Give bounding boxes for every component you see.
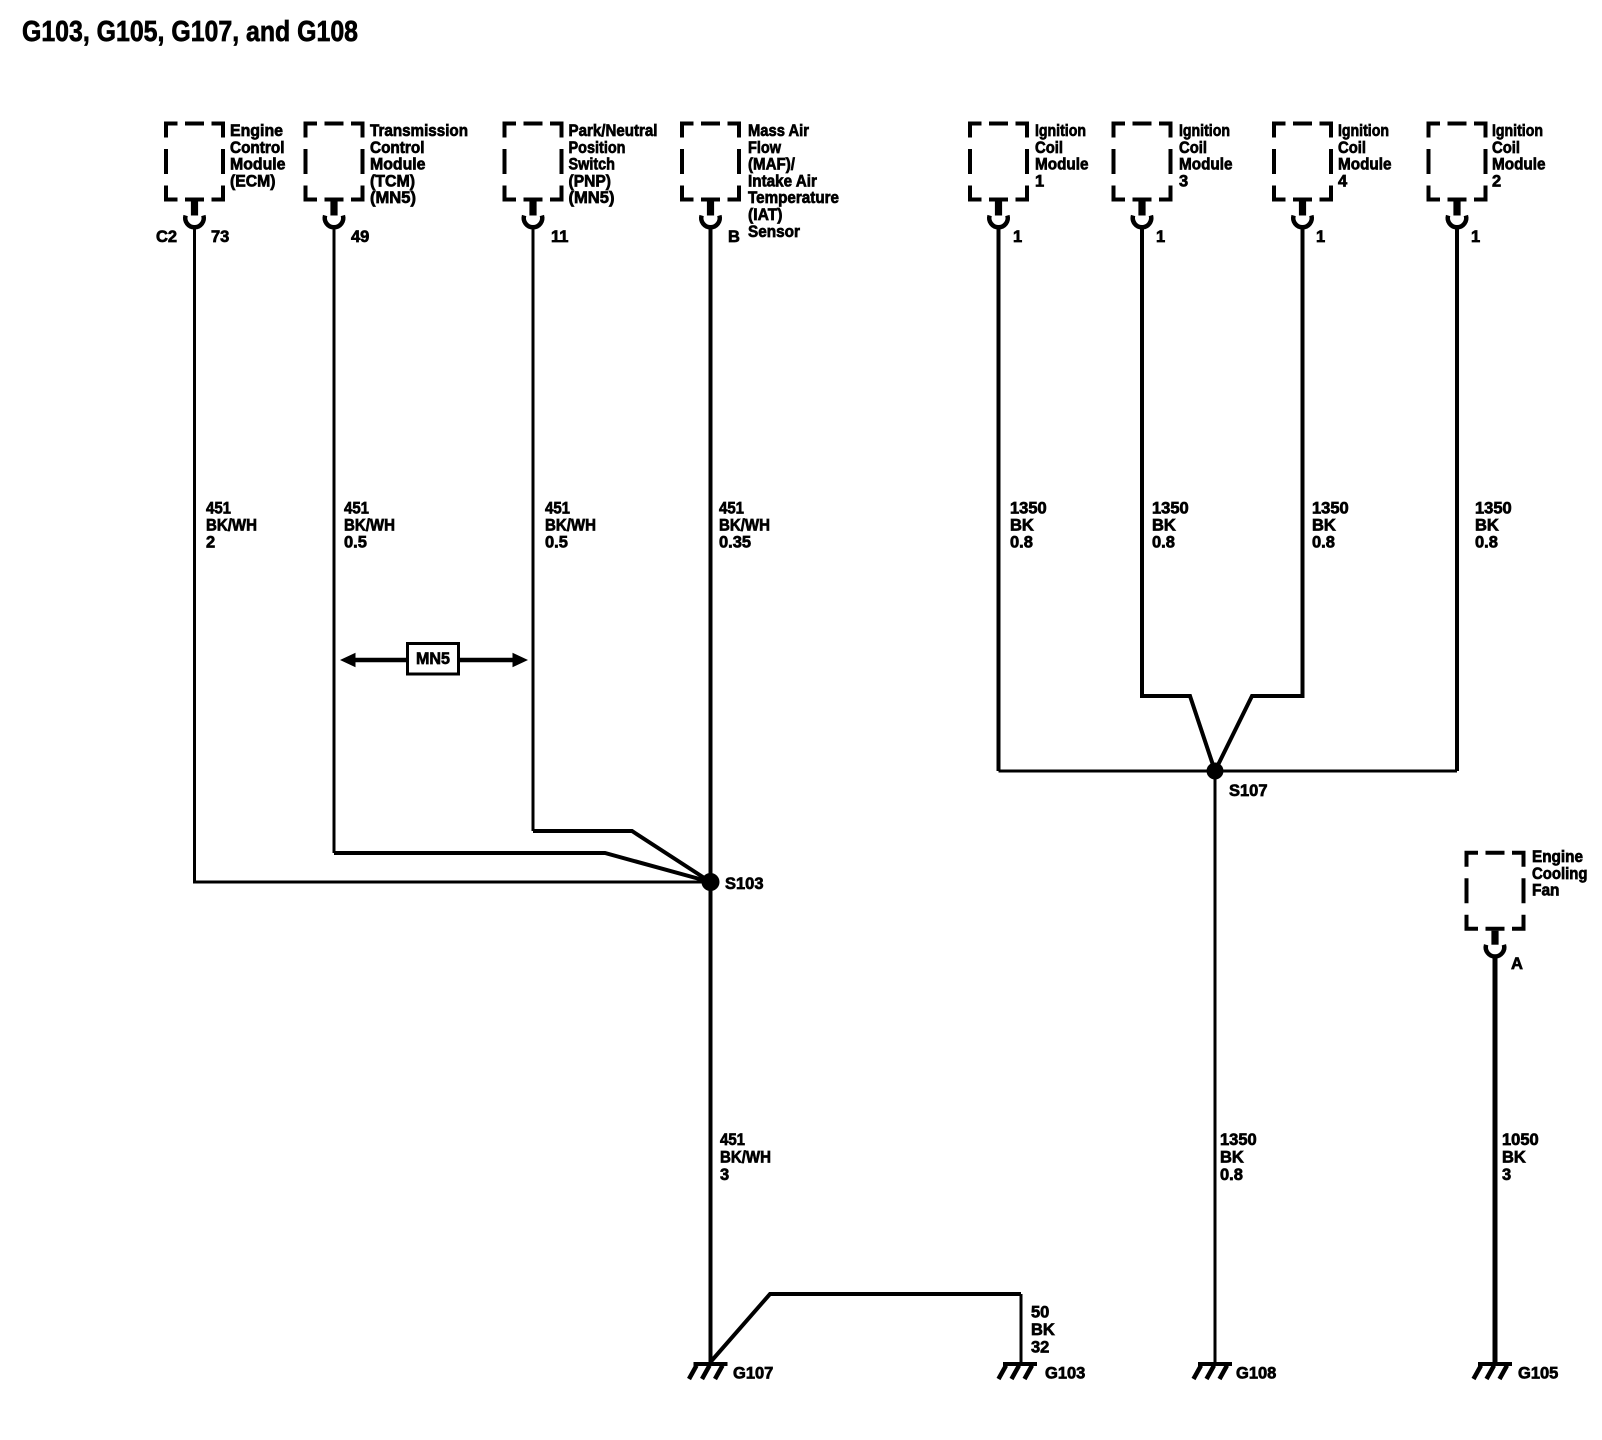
svg-text:BK/WH: BK/WH (206, 517, 257, 535)
svg-text:0.35: 0.35 (719, 534, 751, 552)
svg-text:3: 3 (1179, 172, 1188, 190)
svg-text:Control: Control (230, 139, 285, 157)
svg-text:1: 1 (1035, 172, 1044, 190)
svg-text:Engine: Engine (1532, 848, 1583, 866)
svg-text:0.8: 0.8 (1220, 1166, 1243, 1184)
svg-text:S103: S103 (725, 875, 764, 893)
svg-text:Coil: Coil (1492, 139, 1520, 157)
svg-text:G108: G108 (1236, 1365, 1276, 1383)
svg-text:0.8: 0.8 (1312, 534, 1335, 552)
svg-text:BK: BK (1031, 1321, 1055, 1339)
svg-text:G107: G107 (733, 1365, 773, 1383)
svg-text:G103, G105, G107, and G108: G103, G105, G107, and G108 (22, 16, 358, 48)
svg-text:451: 451 (719, 500, 744, 518)
svg-text:49: 49 (351, 228, 369, 246)
svg-text:BK: BK (1220, 1149, 1244, 1167)
svg-text:1: 1 (1471, 228, 1480, 246)
svg-text:(PNP): (PNP) (569, 172, 612, 190)
svg-text:Mass Air: Mass Air (748, 122, 810, 140)
svg-text:Flow: Flow (748, 139, 781, 157)
svg-text:0.5: 0.5 (545, 534, 568, 552)
svg-text:Module: Module (370, 156, 426, 174)
svg-text:Coil: Coil (1035, 139, 1063, 157)
svg-text:Ignition: Ignition (1179, 122, 1230, 140)
svg-text:1: 1 (1156, 228, 1165, 246)
svg-text:1350: 1350 (1312, 500, 1349, 518)
svg-text:Module: Module (1179, 156, 1233, 174)
svg-text:Position: Position (569, 139, 626, 157)
svg-text:Engine: Engine (230, 122, 283, 140)
svg-text:Sensor: Sensor (748, 223, 801, 241)
svg-text:Cooling: Cooling (1532, 865, 1588, 883)
svg-text:(MN5): (MN5) (569, 189, 615, 207)
svg-text:3: 3 (1502, 1166, 1511, 1184)
svg-text:BK: BK (1502, 1149, 1526, 1167)
svg-text:BK/WH: BK/WH (719, 517, 770, 535)
svg-text:Module: Module (1492, 156, 1546, 174)
svg-text:BK/WH: BK/WH (344, 517, 395, 535)
svg-text:451: 451 (720, 1131, 745, 1149)
svg-text:Fan: Fan (1532, 882, 1560, 900)
svg-text:BK: BK (1152, 517, 1176, 535)
svg-text:1350: 1350 (1220, 1131, 1257, 1149)
svg-text:Switch: Switch (569, 156, 616, 174)
svg-text:Park/Neutral: Park/Neutral (569, 122, 658, 140)
svg-text:Coil: Coil (1179, 139, 1207, 157)
svg-text:BK/WH: BK/WH (720, 1149, 771, 1167)
svg-text:BK: BK (1010, 517, 1034, 535)
svg-text:2: 2 (1492, 172, 1501, 190)
svg-text:G103: G103 (1045, 1365, 1085, 1383)
svg-text:1350: 1350 (1010, 500, 1047, 518)
svg-text:Control: Control (370, 139, 425, 157)
svg-text:Ignition: Ignition (1338, 122, 1389, 140)
svg-text:G105: G105 (1518, 1365, 1558, 1383)
svg-text:2: 2 (206, 534, 215, 552)
svg-text:1050: 1050 (1502, 1131, 1539, 1149)
svg-text:1: 1 (1013, 228, 1022, 246)
svg-text:BK: BK (1475, 517, 1499, 535)
svg-text:0.8: 0.8 (1475, 534, 1498, 552)
svg-text:Module: Module (1035, 156, 1089, 174)
svg-text:3: 3 (720, 1166, 729, 1184)
svg-text:S107: S107 (1229, 782, 1268, 800)
svg-text:1: 1 (1316, 228, 1325, 246)
svg-text:Ignition: Ignition (1492, 122, 1543, 140)
svg-text:BK/WH: BK/WH (545, 517, 596, 535)
svg-text:0.8: 0.8 (1152, 534, 1175, 552)
svg-text:Coil: Coil (1338, 139, 1366, 157)
svg-text:C2: C2 (156, 228, 177, 246)
svg-text:Temperature: Temperature (748, 189, 839, 207)
svg-text:MN5: MN5 (416, 650, 450, 668)
svg-text:73: 73 (211, 228, 229, 246)
svg-text:451: 451 (344, 500, 369, 518)
svg-text:1350: 1350 (1152, 500, 1189, 518)
svg-text:Module: Module (230, 156, 286, 174)
svg-text:451: 451 (545, 500, 570, 518)
svg-text:(MN5): (MN5) (370, 189, 416, 207)
svg-text:(MAF)/: (MAF)/ (748, 156, 795, 174)
svg-text:0.8: 0.8 (1010, 534, 1033, 552)
svg-text:B: B (728, 228, 740, 246)
svg-text:451: 451 (206, 500, 231, 518)
svg-text:(IAT): (IAT) (748, 206, 783, 224)
svg-text:(ECM): (ECM) (230, 172, 276, 190)
svg-text:50: 50 (1031, 1304, 1049, 1322)
svg-text:11: 11 (551, 228, 568, 246)
svg-text:Intake Air: Intake Air (748, 172, 818, 190)
svg-text:A: A (1511, 955, 1523, 973)
svg-text:4: 4 (1338, 172, 1348, 190)
svg-text:Ignition: Ignition (1035, 122, 1086, 140)
svg-text:Module: Module (1338, 156, 1392, 174)
svg-text:Transmission: Transmission (370, 122, 468, 140)
svg-text:32: 32 (1031, 1339, 1049, 1357)
svg-text:0.5: 0.5 (344, 534, 367, 552)
svg-text:(TCM): (TCM) (370, 172, 415, 190)
svg-text:BK: BK (1312, 517, 1336, 535)
svg-text:1350: 1350 (1475, 500, 1512, 518)
